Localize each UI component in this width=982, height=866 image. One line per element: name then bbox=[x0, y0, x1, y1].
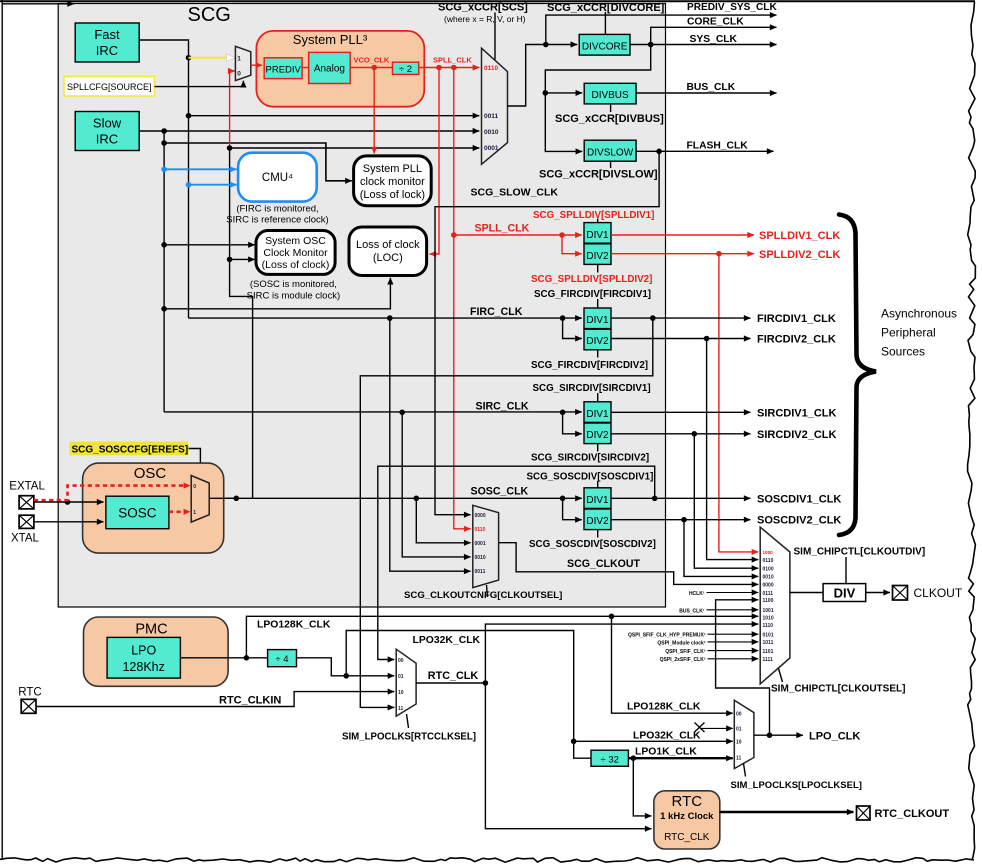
svg-text:QSPI_2xSFIF_CLK²: QSPI_2xSFIF_CLK² bbox=[660, 657, 706, 663]
svg-text:SIM_LPOCLKS[RTCCLKSEL]: SIM_LPOCLKS[RTCCLKSEL] bbox=[342, 732, 476, 743]
svg-text:SIM_CHIPCTL[CLKOUTDIV]: SIM_CHIPCTL[CLKOUTDIV] bbox=[794, 547, 926, 558]
svg-text:1100: 1100 bbox=[763, 598, 774, 604]
wire LPO32K to div32 bbox=[574, 741, 591, 758]
red wire SPLLDIV2 down to CLKOUTSEL 1000 bbox=[719, 254, 758, 552]
svg-text:DIV1: DIV1 bbox=[586, 230, 609, 241]
wire SIRCDIV1_CLK out bbox=[611, 411, 751, 413]
pin XTAL bbox=[19, 515, 34, 528]
wire LPO_CLK out bbox=[754, 732, 803, 738]
tick DIVBUS to label bbox=[610, 104, 612, 112]
divide-by-32 box bbox=[591, 750, 628, 766]
svg-text:SPLL_CLK: SPLL_CLK bbox=[433, 56, 472, 65]
svg-text:LPO: LPO bbox=[131, 644, 156, 658]
SIM_LPOCLKS LPOCLKSEL mux bbox=[734, 700, 754, 768]
wire XTAL to SOSC bbox=[34, 521, 104, 523]
svg-text:CORE_CLK: CORE_CLK bbox=[687, 17, 744, 28]
svg-text:SCG_SIRCDIV[SIRCDIV2]: SCG_SIRCDIV[SIRCDIV2] bbox=[531, 453, 649, 464]
wire yellow FIRC to PLL-source mux input 1 bbox=[189, 57, 235, 59]
svg-text:PMC: PMC bbox=[135, 622, 167, 638]
svg-text:SCG_SPLLDIV[SPLLDIV1]: SCG_SPLLDIV[SPLLDIV1] bbox=[533, 210, 654, 221]
svg-text:(where x = R, V, or H): (where x = R, V, or H) bbox=[444, 14, 526, 24]
SIM_CHIPCTL CLKOUTSEL mux bbox=[760, 527, 790, 684]
svg-text:0: 0 bbox=[237, 71, 241, 78]
wire SOSC trunk up to PLL-source mux 0 (red top) bbox=[227, 71, 253, 498]
svg-text:1000: 1000 bbox=[763, 550, 774, 555]
svg-text:LPO_CLK: LPO_CLK bbox=[809, 731, 860, 743]
svg-text:0110: 0110 bbox=[484, 65, 498, 72]
svg-text:÷ 4: ÷ 4 bbox=[275, 654, 288, 665]
svg-text:SCG_FIRCDIV[FIRCDIV2]: SCG_FIRCDIV[FIRCDIV2] bbox=[531, 360, 648, 371]
svg-text:FIRCDIV1_CLK: FIRCDIV1_CLK bbox=[757, 313, 836, 325]
wire FIRC tap to SCS mux 0011 bbox=[189, 115, 480, 117]
DIVSLOW box bbox=[584, 140, 636, 161]
svg-text:SIM_CHIPCTL[CLKOUTSEL]: SIM_CHIPCTL[CLKOUTSEL] bbox=[771, 684, 905, 695]
wire RTC_CLKIN bbox=[36, 692, 394, 707]
wire SOSCDIV1 link down to RTC mux 00 bbox=[378, 466, 655, 659]
svg-text:(LOC): (LOC) bbox=[373, 252, 403, 264]
wire SCG_SLOW_CLK path bbox=[435, 151, 659, 514]
wire SCS mux output elbow to DIVCORE bbox=[508, 42, 578, 106]
SOSC DIV2 box bbox=[584, 509, 611, 530]
svg-text:SCG_xCCR[DIVBUS]: SCG_xCCR[DIVBUS] bbox=[555, 113, 664, 125]
top-left entry arrow wire bbox=[2, 3, 74, 5]
red wire SPLL trunk down bbox=[451, 68, 471, 529]
svg-text:0000: 0000 bbox=[475, 513, 486, 519]
red dashed SOSC out to mux 1 bbox=[169, 510, 190, 513]
svg-text:DIVCORE: DIVCORE bbox=[582, 41, 628, 52]
tick RTCCLKSEL label bbox=[407, 714, 409, 728]
DIV box bbox=[823, 584, 866, 602]
svg-text:FLASH_CLK: FLASH_CLK bbox=[687, 141, 749, 152]
wire SIRC tap to System PLL clock monitor bbox=[164, 143, 352, 181]
wire SOSC_CLK from OSC mux bbox=[209, 497, 236, 499]
SCG_CLKOUTCNFG mux bbox=[473, 505, 499, 587]
wire LPO128K to LPO mux 00 bbox=[612, 616, 733, 713]
svg-text:SYS_CLK: SYS_CLK bbox=[690, 34, 738, 45]
svg-text:OSC: OSC bbox=[134, 465, 167, 482]
svg-text:SOSC_CLK: SOSC_CLK bbox=[471, 486, 529, 498]
svg-text:(Loss of lock): (Loss of lock) bbox=[360, 189, 425, 201]
svg-text:CLKOUT: CLKOUT bbox=[914, 586, 963, 600]
wire SCS select stub from label bbox=[494, 13, 496, 60]
blue wire FIRC to CMU bbox=[186, 182, 237, 188]
OSC block bbox=[83, 463, 224, 553]
wire RTC_CLK out bbox=[416, 680, 488, 686]
svg-text:SCG_SOSCDIV[SOSCDIV2]: SCG_SOSCDIV[SOSCDIV2] bbox=[529, 539, 656, 550]
svg-text:RTC_CLKOUT: RTC_CLKOUT bbox=[875, 808, 950, 820]
torn right edge bbox=[968, 2, 976, 860]
svg-text:1101: 1101 bbox=[763, 649, 774, 655]
svg-text:SIM_LPOCLKS[LPOCLKSEL]: SIM_LPOCLKS[LPOCLKSEL] bbox=[731, 780, 862, 791]
svg-text:SCG_SLOW_CLK: SCG_SLOW_CLK bbox=[471, 187, 559, 199]
svg-text:128Khz: 128Khz bbox=[122, 660, 164, 674]
svg-text:1001: 1001 bbox=[763, 608, 774, 614]
svg-text:10: 10 bbox=[736, 740, 742, 746]
svg-text:PREDIV_SYS_CLK: PREDIV_SYS_CLK bbox=[687, 2, 777, 13]
FIRC DIV2 box bbox=[584, 329, 611, 350]
svg-text:÷ 32: ÷ 32 bbox=[600, 755, 618, 766]
wire SOSC tap to SCS mux 0001 bbox=[230, 147, 480, 149]
SOSC DIV1 box bbox=[584, 488, 611, 509]
brace Asynchronous Peripheral Sources bbox=[839, 215, 876, 536]
SIM_LPOCLKS RTCCLKSEL mux bbox=[396, 649, 416, 716]
wire SOSC down to CLKOUTCNFG 0001 bbox=[416, 498, 470, 543]
wire EREFS select bbox=[189, 449, 201, 481]
wire FIRCDIV2_CLK out bbox=[611, 336, 751, 342]
tick SIRCDIV2 label bbox=[597, 444, 599, 452]
wire EXTAL to SOSC bbox=[34, 499, 104, 505]
tick SOSCDIV1 label bbox=[597, 481, 599, 488]
tick CLKOUTCNFG label bbox=[487, 585, 488, 597]
wire SOSCDIV1_CLK out bbox=[611, 496, 751, 502]
svg-text:SIRC_CLK: SIRC_CLK bbox=[476, 401, 529, 413]
svg-text:QSPI_SFIF_CLK²: QSPI_SFIF_CLK² bbox=[665, 649, 706, 655]
wire FIRCDIV1 link down to RTC mux 11 bbox=[360, 318, 653, 707]
svg-text:SCG_SOSCCFG[EREFS]: SCG_SOSCCFG[EREFS] bbox=[72, 445, 189, 456]
svg-text:11: 11 bbox=[398, 706, 404, 712]
svg-text:1: 1 bbox=[237, 56, 241, 63]
svg-text:LPO32K_CLK: LPO32K_CLK bbox=[633, 731, 701, 742]
svg-text:Loss of clock: Loss of clock bbox=[356, 239, 420, 251]
tick SPLLDIV1 label bbox=[597, 219, 599, 223]
svg-text:SCG_CLKOUT: SCG_CLKOUT bbox=[567, 558, 641, 570]
svg-text:0111: 0111 bbox=[763, 591, 774, 597]
wire FIRC from Fast IRC down left trunk bbox=[139, 40, 191, 318]
svg-text:SOSCDIV2_CLK: SOSCDIV2_CLK bbox=[757, 515, 841, 527]
svg-text:HCLK¹: HCLK¹ bbox=[689, 591, 705, 597]
svg-text:SCG_FIRCDIV[FIRCDIV1]: SCG_FIRCDIV[FIRCDIV1] bbox=[534, 289, 651, 300]
svg-text:DIV2: DIV2 bbox=[586, 251, 609, 262]
svg-text:SCG: SCG bbox=[188, 4, 231, 26]
svg-text:clock monitor: clock monitor bbox=[360, 176, 425, 188]
wire SYS_CLK from DIVCORE bbox=[630, 42, 777, 48]
svg-text:DIV: DIV bbox=[834, 586, 856, 601]
svg-text:QSPI_Module clock²: QSPI_Module clock² bbox=[657, 640, 705, 646]
svg-text:0001: 0001 bbox=[484, 145, 499, 152]
svg-text:RTC_CLK: RTC_CLK bbox=[428, 670, 479, 682]
svg-text:DIV2: DIV2 bbox=[586, 516, 609, 527]
SIRC DIV1 box bbox=[584, 402, 611, 423]
red wire SPLLDIV2_CLK out bbox=[611, 251, 754, 257]
svg-text:PREDIV: PREDIV bbox=[266, 64, 302, 75]
FIRC DIV1 box bbox=[584, 308, 611, 329]
wire FLASH_CLK bbox=[636, 149, 773, 155]
svg-text:SIRC is module clock): SIRC is module clock) bbox=[247, 291, 340, 302]
label SCG_SOSCCFG[EREFS] highlighted bbox=[70, 442, 189, 456]
wire PREDIV_SYS_CLK bbox=[546, 15, 777, 44]
SIRC DIV2 box bbox=[584, 423, 611, 444]
svg-text:SOSC: SOSC bbox=[118, 506, 157, 521]
svg-text:SCG_CLKOUTCNFG[CLKOUTSEL]: SCG_CLKOUTCNFG[CLKOUTSEL] bbox=[404, 590, 562, 601]
svg-text:IRC: IRC bbox=[96, 132, 118, 147]
tick CLKOUTDIV label to DIV bbox=[845, 557, 847, 584]
red wire VCO down to PLL monitor bbox=[373, 68, 375, 154]
svg-text:IRC: IRC bbox=[96, 43, 118, 58]
svg-text:FIRC_CLK: FIRC_CLK bbox=[470, 306, 523, 318]
wire SOSC tap to System OSC clock monitor bbox=[230, 258, 255, 260]
svg-text:DIV1: DIV1 bbox=[586, 315, 609, 326]
tick FIRCDIV2 label bbox=[597, 350, 599, 358]
svg-text:1: 1 bbox=[193, 510, 196, 516]
red wire Analog to div2 with VCO tap bbox=[350, 65, 392, 71]
svg-text:0010: 0010 bbox=[484, 129, 499, 136]
svg-text:11: 11 bbox=[736, 756, 742, 762]
svg-text:1110: 1110 bbox=[763, 623, 774, 629]
svg-text:0110: 0110 bbox=[475, 527, 486, 533]
blue wire SIRC to CMU bbox=[161, 167, 236, 173]
tick LPOCLKSEL label bbox=[744, 764, 746, 777]
PLL source select mux bbox=[235, 46, 250, 80]
red wire SPLLDIV1_CLK out bbox=[611, 234, 754, 236]
wire QSPI module to 1011 bbox=[708, 641, 759, 643]
wire div32 down to RTC block bbox=[633, 758, 651, 816]
wire QSPI 2xSFIF to 1111 bbox=[708, 658, 759, 660]
svg-text:QSPI_SFIF_CLK_HYP_PREMUX²: QSPI_SFIF_CLK_HYP_PREMUX² bbox=[628, 633, 706, 639]
svg-text:SPLLCFG[SOURCE]: SPLLCFG[SOURCE] bbox=[67, 82, 152, 92]
wire LPO1K div32 out to LPO mux 11 bbox=[628, 755, 732, 761]
svg-text:System PLL³: System PLL³ bbox=[293, 32, 368, 47]
DIVCORE box bbox=[579, 34, 630, 55]
wire core down to DIVBUS / DIVSLOW bbox=[543, 45, 651, 152]
wire QSPI premux to 0101 bbox=[708, 633, 759, 635]
wire FIRCDIV1_CLK out bbox=[611, 315, 751, 321]
svg-text:Analog: Analog bbox=[314, 64, 345, 75]
svg-text:1011: 1011 bbox=[763, 640, 774, 646]
torn bottom edge bbox=[0, 858, 974, 863]
wire SIRC tap to System OSC clock monitor bbox=[164, 244, 255, 246]
svg-text:10: 10 bbox=[398, 690, 404, 696]
svg-text:DIVSLOW: DIVSLOW bbox=[587, 147, 634, 158]
wire FIRC down to CLKOUTCNFG 0011 bbox=[390, 318, 471, 571]
svg-text:RTC: RTC bbox=[18, 687, 41, 699]
tick SIRCDIV1 label bbox=[597, 393, 599, 402]
red dashed EXTAL bypass to mux 0 bbox=[34, 486, 190, 501]
Fast IRC block bbox=[75, 23, 139, 62]
pin RTC bbox=[21, 699, 36, 713]
tick DIVSLOW to label bbox=[610, 161, 612, 168]
svg-text:SIRCDIV2_CLK: SIRCDIV2_CLK bbox=[757, 429, 837, 441]
svg-text:0110: 0110 bbox=[763, 558, 774, 564]
PREDIV box bbox=[264, 58, 302, 79]
svg-text:RTC: RTC bbox=[672, 793, 703, 810]
svg-text:0010: 0010 bbox=[475, 555, 486, 561]
wire RTC_CLKOUT bbox=[720, 811, 854, 813]
LPO 128Khz box bbox=[107, 637, 180, 678]
svg-text:0: 0 bbox=[193, 484, 196, 490]
svg-text:0011: 0011 bbox=[475, 569, 486, 575]
wire LPO out to div4 bbox=[180, 655, 267, 661]
OSC bypass mux bbox=[191, 476, 209, 523]
svg-text:DIV1: DIV1 bbox=[586, 409, 609, 420]
caption OSC monitor bbox=[247, 279, 340, 302]
svg-text:System OSC: System OSC bbox=[265, 235, 326, 247]
SCG gray region bbox=[58, 4, 665, 608]
wire CLKOUTSEL mux out to DIV bbox=[790, 592, 823, 594]
svg-text:Fast: Fast bbox=[94, 27, 120, 42]
wire FIRC_CLK to DIV1/DIV2 bbox=[189, 315, 582, 338]
wire SOSCDIV2_CLK out bbox=[611, 517, 751, 523]
wire SOSCDIV2 down to CLKOUTSEL 0010 bbox=[684, 520, 758, 577]
tick CLKOUTSEL label bbox=[779, 669, 783, 683]
wire QSPI SFIF to 1101 bbox=[708, 650, 759, 652]
svg-text:01: 01 bbox=[398, 674, 404, 680]
label Asynchronous Peripheral Sources bbox=[881, 307, 957, 359]
svg-text:DIV2: DIV2 bbox=[586, 336, 609, 347]
svg-text:(Loss of clock): (Loss of clock) bbox=[262, 259, 330, 271]
svg-text:LPO32K_CLK: LPO32K_CLK bbox=[413, 635, 481, 646]
tick DIVCORE label to box bbox=[604, 12, 606, 34]
red wire down to LOC bbox=[430, 68, 440, 255]
PMC block bbox=[84, 617, 229, 686]
wire HCLK to 0111 bbox=[707, 592, 759, 594]
wire LPO128K_CLK long line bbox=[246, 614, 758, 658]
CMU block bbox=[238, 153, 317, 202]
svg-text:FIRCDIV2_CLK: FIRCDIV2_CLK bbox=[757, 334, 836, 346]
svg-text:SCG_SIRCDIV[SIRCDIV1]: SCG_SIRCDIV[SIRCDIV1] bbox=[533, 383, 651, 394]
RTC block bbox=[654, 791, 720, 849]
svg-text:SCG_xCCR[SCS]: SCG_xCCR[SCS] bbox=[438, 2, 528, 14]
svg-text:Clock Monitor: Clock Monitor bbox=[263, 247, 328, 259]
caption CMU bbox=[226, 204, 328, 226]
svg-text:CMU⁴: CMU⁴ bbox=[262, 172, 293, 184]
System OSC Clock Monitor block bbox=[256, 231, 335, 275]
svg-text:RTC_CLKIN: RTC_CLKIN bbox=[219, 695, 281, 707]
svg-text:LPO128K_CLK: LPO128K_CLK bbox=[257, 620, 331, 631]
Analog box bbox=[309, 52, 351, 83]
page left border bbox=[1, 0, 3, 859]
wire X to LPO mux 01 bbox=[701, 727, 733, 729]
svg-text:1 kHz Clock: 1 kHz Clock bbox=[660, 811, 714, 822]
wire SIRCDIV2 down to CLKOUTSEL 0100 bbox=[694, 434, 758, 568]
tick SPLLDIV2 label bbox=[597, 264, 599, 272]
divide-by-4 box bbox=[268, 650, 297, 667]
svg-text:SPLL_CLK: SPLL_CLK bbox=[475, 223, 530, 235]
svg-text:Asynchronous: Asynchronous bbox=[881, 307, 957, 321]
DIVBUS box bbox=[584, 83, 636, 104]
svg-text:(FIRC is monitored,: (FIRC is monitored, bbox=[236, 204, 318, 215]
wire CORE_CLK bbox=[651, 27, 777, 44]
wire RTC_CLK up to CLKOUTSEL 1110 bbox=[485, 624, 758, 683]
svg-text:0011: 0011 bbox=[484, 113, 498, 120]
wire RTC_CLK down to RTC block bbox=[485, 683, 651, 829]
svg-text:0010: 0010 bbox=[763, 575, 774, 581]
pin EXTAL bbox=[19, 496, 34, 509]
wire SOSC_CLK to DIV1/DIV2 bbox=[209, 496, 582, 520]
svg-text:SIRCDIV1_CLK: SIRCDIV1_CLK bbox=[757, 408, 837, 420]
svg-text:RTC_CLK: RTC_CLK bbox=[664, 832, 710, 843]
svg-text:DIV2: DIV2 bbox=[586, 430, 609, 441]
svg-text:00: 00 bbox=[398, 658, 404, 664]
wire SIRC down to CLKOUTCNFG 0010 bbox=[402, 412, 470, 557]
wire SIRC to LOC bottom bbox=[164, 278, 390, 309]
red wire SPLL_CLK to DIV1/DIV2 bbox=[454, 232, 582, 254]
svg-text:BUS_CLK: BUS_CLK bbox=[687, 82, 736, 93]
svg-text:0100: 0100 bbox=[763, 567, 774, 573]
svg-text:BUS_CLK¹: BUS_CLK¹ bbox=[679, 608, 705, 614]
svg-text:SCG_SOSCDIV[SOSCDIV1]: SCG_SOSCDIV[SOSCDIV1] bbox=[527, 472, 654, 483]
wire SIRCDIV2_CLK out bbox=[611, 431, 751, 437]
wire FIRCDIV2 down to CLKOUTSEL 0110 bbox=[707, 339, 759, 560]
svg-text:EXTAL: EXTAL bbox=[9, 481, 45, 493]
svg-text:XTAL: XTAL bbox=[11, 533, 40, 545]
svg-text:SCG_SPLLDIV[SPLLDIV2]: SCG_SPLLDIV[SPLLDIV2] bbox=[531, 274, 652, 285]
wire BUS_CLK to 1001 bbox=[707, 609, 759, 611]
SCS system clock mux bbox=[482, 48, 508, 164]
svg-text:0001: 0001 bbox=[475, 541, 486, 547]
page top border bbox=[0, 0, 975, 2]
X mark reserved input bbox=[695, 723, 705, 733]
svg-text:÷ 2: ÷ 2 bbox=[399, 64, 412, 75]
pin CLKOUT bbox=[893, 586, 908, 601]
wire DIV to CLKOUT pin bbox=[866, 592, 890, 594]
SPLLCFG[SOURCE] register box bbox=[64, 77, 155, 97]
tick SOSCDIV2 label bbox=[597, 530, 599, 538]
System PLL clock monitor block bbox=[354, 156, 432, 206]
wire SIRC from Slow IRC down trunk bbox=[139, 128, 479, 412]
svg-text:00: 00 bbox=[736, 712, 742, 718]
svg-text:System PLL: System PLL bbox=[363, 163, 422, 175]
svg-text:DIV1: DIV1 bbox=[586, 495, 609, 506]
wire SPLLCFG select to mux bottom bbox=[155, 81, 244, 87]
svg-text:VCO_CLK: VCO_CLK bbox=[354, 56, 390, 65]
svg-text:LPO1K_CLK: LPO1K_CLK bbox=[635, 747, 697, 758]
svg-text:Sources: Sources bbox=[881, 345, 925, 359]
svg-text:Peripheral: Peripheral bbox=[881, 326, 936, 340]
wire SCG_CLKOUT to CLKOUTSEL 0000 bbox=[499, 543, 759, 585]
svg-text:DIVBUS: DIVBUS bbox=[591, 90, 629, 101]
red wire mux out to PREDIV bbox=[251, 64, 262, 66]
svg-text:Slow: Slow bbox=[93, 116, 122, 131]
Loss of clock LOC block bbox=[349, 227, 427, 276]
SOSC box bbox=[106, 496, 169, 529]
System PLL block bbox=[256, 31, 424, 107]
pin RTC_CLKOUT bbox=[857, 806, 871, 820]
wire LPO32K_CLK to LPO mux bbox=[346, 631, 733, 745]
wire BUS_CLK bbox=[636, 92, 776, 94]
wire div4 out to RTC mux 01 bbox=[297, 658, 395, 679]
tick FIRCDIV1 label bbox=[597, 299, 599, 308]
svg-text:0101: 0101 bbox=[763, 633, 774, 639]
svg-text:LPO128K_CLK: LPO128K_CLK bbox=[627, 702, 701, 713]
SPLL DIV2 box bbox=[584, 244, 611, 265]
Slow IRC block bbox=[75, 112, 139, 151]
red wire PREDIV to Analog bbox=[302, 67, 309, 69]
svg-text:1111: 1111 bbox=[763, 657, 774, 663]
svg-text:(SOSC is monitored,: (SOSC is monitored, bbox=[250, 279, 337, 290]
svg-text:SOSCDIV1_CLK: SOSCDIV1_CLK bbox=[757, 493, 841, 505]
svg-text:SIRC is reference clock): SIRC is reference clock) bbox=[226, 215, 328, 226]
svg-text:SPLLDIV1_CLK: SPLLDIV1_CLK bbox=[759, 230, 840, 242]
svg-text:1010: 1010 bbox=[763, 616, 774, 622]
red wire SPLL_CLK main to SCS 0110 bbox=[419, 65, 480, 71]
svg-text:0000: 0000 bbox=[763, 583, 774, 589]
svg-text:SPLLDIV2_CLK: SPLLDIV2_CLK bbox=[759, 249, 840, 261]
wire SIRC_CLK to DIV1/DIV2 bbox=[164, 410, 582, 434]
SPLL DIV1 box bbox=[584, 223, 611, 244]
svg-text:01: 01 bbox=[736, 727, 742, 733]
svg-text:SCG_xCCR[DIVSLOW]: SCG_xCCR[DIVSLOW] bbox=[539, 169, 658, 181]
divide-by-2 box bbox=[393, 62, 419, 75]
wire LPO_CLK loopback to CLKOUTSEL 1100 bbox=[716, 600, 770, 735]
